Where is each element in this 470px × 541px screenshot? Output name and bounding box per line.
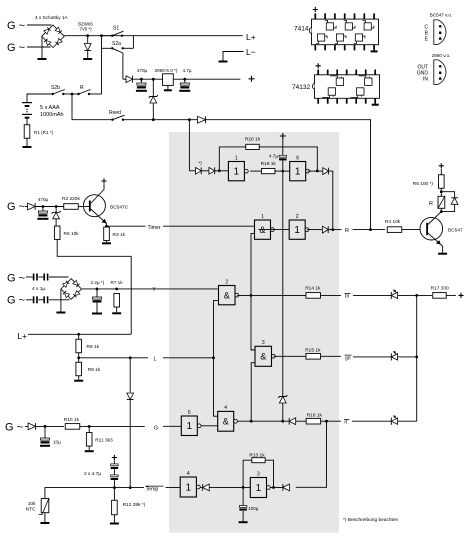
wire G5 out to G6: [258, 229, 289, 231]
wire L node down to diode D6: [129, 358, 131, 393]
wire flyback diode bottom: [441, 204, 454, 211]
wire S2a branch from rail: [132, 36, 134, 49]
svg-text:1: 1: [256, 483, 262, 494]
ground (TVS): [83, 58, 92, 60]
ground (C7): [239, 521, 248, 523]
svg-text:2: 2: [296, 214, 299, 220]
svg-text:R11 3k3: R11 3k3: [95, 438, 113, 444]
wire R13 feedback: [243, 460, 252, 487]
resistor R14 1k: [306, 293, 321, 299]
node relay bottom: [440, 210, 443, 213]
wire R11 to ground: [88, 446, 90, 450]
relay coil R: [438, 196, 445, 208]
svg-text:G ~: G ~: [7, 42, 25, 54]
ground (R1): [23, 146, 32, 148]
wire G~2 to bridge bottom: [27, 46, 51, 48]
LED D13 (blue): [390, 292, 392, 299]
wire zener to G row: [282, 403, 284, 421]
svg-text:*): *): [198, 161, 202, 167]
wire caps to bridge2: [49, 276, 69, 278]
wire node to S1: [102, 35, 113, 37]
resistor R9 1k: [78, 358, 80, 363]
wire D8 to D9: [201, 170, 209, 172]
svg-text:*) Beschreibung beachten: *) Beschreibung beachten: [343, 517, 399, 523]
diode D1 charge input: [126, 76, 133, 83]
node D12/D10 join: [331, 228, 334, 231]
wire plus rail upper: [282, 139, 284, 155]
wire D17 to gate G12: [209, 486, 250, 488]
svg-text:OUT: OUT: [417, 64, 428, 70]
wire Q2 emitter with arrow: [428, 233, 443, 253]
svg-text:R3 1k: R3 1k: [113, 232, 126, 238]
wire G3 out to R19: [250, 170, 261, 172]
wire LED3 to bus: [398, 420, 417, 422]
wire R10 to G label: [80, 425, 145, 427]
wire G into gate G5: [163, 425, 181, 427]
svg-text:1000mAh: 1000mAh: [40, 112, 64, 118]
wire G~1 to bridge top: [27, 24, 52, 26]
wire L row right segment: [163, 357, 214, 359]
svg-text:IN: IN: [423, 77, 428, 83]
resistor R19 1k: [261, 169, 275, 174]
wire zener to R6: [55, 219, 57, 226]
wire R20 to gate G4 output node: [259, 147, 317, 171]
wire R8 to L node: [78, 353, 80, 358]
wire Temp row to label: [114, 487, 144, 489]
node A / bl row: [250, 294, 253, 297]
capacitor C7 100u: [242, 487, 244, 505]
zener diode D5: [53, 212, 60, 219]
thermistor NTC 10k: [41, 499, 49, 513]
wire battery plus up to S2b: [27, 94, 53, 102]
wire LED1 to R17: [398, 294, 432, 296]
wire R14 to bl label: [320, 294, 341, 296]
svg-text:3: 3: [262, 340, 265, 346]
svg-text:R: R: [429, 201, 433, 207]
svg-text:1: 1: [235, 155, 238, 161]
zener diode D2: [150, 97, 157, 104]
diode D15 (pointing left): [288, 418, 290, 425]
svg-text:R13 1k: R13 1k: [249, 452, 265, 458]
svg-text:BC547 v.o.: BC547 v.o.: [430, 13, 452, 18]
resistor R11 3k3: [88, 426, 90, 432]
ground (R11): [85, 450, 94, 452]
wire R3 to ground: [106, 241, 108, 243]
capacitor C3 470u electrolytic: [42, 207, 44, 212]
wire Q1 collector to plus: [91, 184, 105, 204]
svg-text:2: 2: [225, 279, 228, 285]
nand gate G11 (&): [218, 411, 234, 431]
ground (bridge B1): [38, 58, 47, 60]
svg-text:1: 1: [261, 214, 264, 220]
node R11: [88, 425, 91, 428]
switch S2b: [52, 93, 54, 95]
svg-text:R6 10k: R6 10k: [64, 231, 80, 237]
wire R12 to ground: [113, 515, 115, 523]
wire R to R4: [353, 229, 386, 231]
capacitors 2 x 4.7u: [112, 455, 117, 460]
svg-text:R19 1k: R19 1k: [261, 161, 277, 167]
wire vertical net A lower: [251, 363, 255, 422]
diode D17 (pointing left): [202, 484, 204, 491]
svg-text:2.2µ *): 2.2µ *): [91, 280, 105, 285]
wire Q2 collector: [428, 212, 441, 225]
ground (C5): [40, 445, 50, 447]
capacitor C2 4.7u electrolytic: [184, 79, 186, 83]
wire R17 to plus: [446, 294, 456, 296]
wire R16 to rt label: [321, 420, 341, 422]
switch S1: [111, 35, 113, 37]
svg-text:L+: L+: [246, 32, 256, 42]
voltage regulator U3 2950-5.0: [163, 74, 174, 86]
svg-text:C: C: [424, 24, 428, 30]
wire R19 to gate G4: [275, 170, 290, 172]
wire G5 lower input hook: [251, 233, 255, 236]
resistor R8 1k: [78, 334, 80, 339]
reed switch: [111, 119, 113, 121]
nand gate G7 (&) Y: [219, 286, 236, 305]
resistor R20 1k: [246, 144, 260, 149]
node B / L row: [212, 356, 215, 359]
wire R4 to Q2 base: [402, 229, 420, 231]
wire R5 to relay coil: [440, 188, 442, 196]
diode D6 (pointing down): [127, 393, 134, 400]
wire reed to diode D3: [123, 119, 197, 121]
wire plus to R5: [440, 169, 442, 175]
node rt / temp riser: [325, 420, 328, 423]
node LED bus top: [415, 294, 418, 297]
svg-text:R20 1k: R20 1k: [245, 136, 261, 142]
diode D18 (pointing left): [282, 484, 284, 491]
svg-text:NTC: NTC: [26, 507, 36, 513]
svg-text:74132: 74132: [292, 84, 310, 91]
wire feedback to R20: [219, 147, 245, 171]
wire L row left segment: [79, 357, 148, 359]
node relay/diode top: [440, 190, 443, 193]
ground (L-): [219, 61, 228, 63]
ground (R3): [102, 242, 111, 244]
node zener return: [152, 118, 155, 121]
node C5 10u: [44, 425, 47, 428]
wire R6 bottom to L+ riser: [57, 240, 131, 335]
svg-text:4: 4: [224, 405, 227, 411]
diode D10: [323, 168, 329, 175]
svg-text:S2a: S2a: [112, 41, 121, 47]
node 470u: [140, 78, 143, 81]
svg-text:BC547C: BC547C: [110, 205, 129, 211]
svg-text:R: R: [345, 228, 349, 234]
wire G10 out to G11: [201, 425, 218, 427]
resistor R16 1k: [306, 418, 321, 424]
svg-text:7V0 *): 7V0 *): [79, 27, 92, 32]
ground (C4): [92, 313, 102, 315]
node Temp / D6 join: [129, 486, 132, 489]
svg-text:R9 1k: R9 1k: [88, 367, 101, 373]
svg-text:R5 100 *): R5 100 *): [413, 181, 434, 187]
ground (R7): [112, 312, 121, 314]
svg-text:R12 39k *): R12 39k *): [123, 502, 146, 508]
svg-text:S1: S1: [113, 26, 119, 32]
svg-text:&: &: [224, 291, 230, 301]
svg-text:BC547: BC547: [448, 228, 463, 234]
node LED bus mid: [415, 356, 418, 359]
svg-text:G ~: G ~: [5, 422, 23, 434]
plus symbol Q1 collector: [101, 178, 106, 183]
wire G4 out to diode D10: [308, 170, 323, 172]
relay contact R (switch): [77, 93, 79, 95]
wire Q1 emitter with arrow: [91, 209, 107, 226]
wire NTC to Temp row: [45, 488, 115, 499]
ground (Q2 emitter): [438, 253, 447, 255]
wire R13 feedback right: [265, 460, 273, 487]
node L / diode branch: [129, 356, 132, 359]
wire G12 out to D18: [270, 487, 283, 489]
node C3: [42, 205, 45, 208]
capacitor C5 10u electrolytic: [44, 426, 46, 438]
svg-text:L+: L+: [17, 331, 27, 341]
plus symbol relay supply: [439, 163, 444, 168]
capacitor C6 4.7u: [279, 155, 287, 157]
wire Timer into gate G1: [163, 225, 255, 227]
svg-text:5 x AAA: 5 x AAA: [40, 105, 60, 111]
node oscillator feedback: [218, 169, 221, 172]
svg-text:4 x Schottky 1A: 4 x Schottky 1A: [35, 15, 68, 20]
svg-text:R10 1k: R10 1k: [64, 417, 80, 423]
svg-text:1: 1: [295, 167, 301, 178]
wire Y row to gate G2: [82, 288, 219, 290]
svg-text:4.7µ: 4.7µ: [269, 154, 278, 159]
wire bridge1 left vertex to ground: [41, 37, 43, 59]
wire NTC to ground: [44, 513, 46, 522]
wire relay to collector node: [440, 208, 442, 211]
svg-text:6: 6: [296, 155, 299, 161]
resistor R3 1k: [104, 227, 110, 241]
svg-text:2 x 4.7µ: 2 x 4.7µ: [84, 471, 101, 477]
svg-text:&: &: [260, 352, 266, 362]
diode D3 on reed rail: [198, 116, 206, 123]
wire bridge2 left vertex to ground: [60, 289, 62, 311]
node 4.7u: [183, 78, 186, 81]
wire S2a to charge diode: [122, 53, 124, 79]
ground (regulator): [164, 89, 172, 91]
resistor R15 1k: [306, 354, 321, 360]
wire gn to LED2: [353, 356, 391, 358]
inverter gate G12: [250, 478, 266, 498]
svg-text:R1 (R1 *): R1 (R1 *): [34, 130, 54, 135]
wire G7 out to R14: [237, 294, 306, 296]
wire G8 out to D17: [200, 486, 203, 488]
wire plus rail vertical: [282, 161, 284, 397]
wire LED2 to bus: [398, 356, 417, 358]
node BZW06 tap: [86, 34, 89, 37]
svg-text:R4 10k: R4 10k: [385, 219, 401, 225]
wire D6 down to Temp node: [129, 400, 131, 488]
bridge rectifier B1 (4 x Schottky 1A): [42, 25, 65, 48]
svg-text:3: 3: [257, 471, 260, 477]
resistor R4 10k: [387, 227, 402, 233]
wire regulator output rail: [173, 78, 240, 80]
wire node down to S2a: [101, 36, 103, 49]
transistor Q1 BC547C: [83, 195, 105, 217]
wire G~3 to diode D4: [25, 206, 28, 208]
svg-text:1: 1: [187, 421, 193, 432]
wire main positive rail to L+: [64, 35, 242, 37]
svg-text:4.7µ: 4.7µ: [182, 68, 191, 73]
wire R contact to rail riser: [89, 93, 102, 95]
LED D16 (red): [390, 418, 392, 425]
wire D10 down to R node: [329, 171, 333, 229]
svg-text:R14 1k: R14 1k: [305, 286, 321, 292]
wire node to zener D5: [55, 207, 57, 213]
ground (NTC): [40, 522, 49, 524]
node zener D5 / R6: [55, 205, 58, 208]
wire R9 to ground: [78, 376, 80, 380]
wire zener to reed rail: [152, 103, 154, 120]
svg-text:100µ: 100µ: [248, 506, 259, 511]
diode D4: [28, 203, 35, 210]
svg-text:R15 1k: R15 1k: [305, 348, 321, 354]
capacitor C4 2.2u electrolytic: [96, 289, 98, 297]
svg-text:470µ: 470µ: [38, 197, 49, 202]
svg-text:G ~: G ~: [7, 273, 25, 285]
inverter gate G10: [181, 416, 197, 436]
wire to reed switch: [72, 119, 113, 121]
node R19/plus rail: [281, 170, 284, 173]
switch S2a: [111, 47, 113, 49]
wire S2b to R contact: [63, 93, 78, 95]
svg-text:2950-5.0 *): 2950-5.0 *): [155, 68, 178, 73]
bridge rectifier B2: [61, 279, 82, 300]
svg-text:G: G: [154, 426, 158, 432]
wire L- stub and ground: [223, 52, 244, 61]
plus symbol logic supply: [280, 133, 286, 139]
wire to TVS D-BZW: [87, 36, 89, 43]
inverter gate G4 (IC gate 6): [290, 162, 306, 181]
ground (bridge B2): [56, 312, 65, 314]
ground (74132 pin 7): [372, 104, 379, 106]
wire diode to R2: [34, 206, 64, 208]
svg-text:R: R: [80, 85, 84, 91]
ground (7414 pin 7): [371, 50, 378, 52]
wire L+ row: [28, 333, 131, 335]
ground (C1): [136, 90, 147, 92]
resistor R12 39k: [113, 488, 115, 501]
IC U2 74132 DIP-14 package: [315, 75, 380, 99]
wire R15 to gn label: [320, 355, 341, 357]
node L+ / R8: [77, 333, 80, 336]
node G4 output / feedback: [316, 170, 319, 173]
svg-text:7414: 7414: [294, 26, 309, 33]
node R7: [115, 288, 118, 291]
IC U1 7414 DIP-14 package: [312, 19, 379, 45]
LED D14 (green): [390, 353, 392, 360]
wire caps to bridge2 bottom: [49, 299, 70, 301]
resistor R17 330: [433, 293, 447, 299]
wire Temp into gate G8: [166, 487, 181, 489]
resistor R1: [24, 125, 30, 139]
svg-text:1: 1: [294, 225, 300, 236]
svg-text:L: L: [153, 357, 156, 363]
wire rt to LED3: [352, 420, 391, 422]
node R13/C7: [242, 486, 245, 489]
svg-text:10µ: 10µ: [53, 440, 61, 445]
wire G~4 to diode D7: [25, 425, 28, 427]
wire G6 out to diode D12: [307, 229, 322, 231]
plus symbol 7414 Vcc: [313, 7, 318, 12]
wire emitter to Timer label: [107, 225, 146, 227]
ground (C2): [179, 90, 190, 92]
node G12 out / R13: [272, 486, 275, 489]
wire R1 to ground: [26, 138, 28, 146]
battery BT1 5 x AAA 1000mAh: [22, 102, 32, 103]
resistor R7 1k: [114, 294, 120, 308]
wire node down to zener D2: [152, 79, 154, 96]
flyback diode D19: [451, 198, 458, 205]
ground (R12): [110, 523, 119, 525]
wire battery minus to R1: [26, 119, 28, 125]
diode D8 oscillator: [195, 167, 201, 174]
wire vertical net A: [251, 236, 255, 350]
wire riser to S2a row: [101, 48, 103, 94]
node C4 2.2u: [96, 288, 99, 291]
svg-text:S2b: S2b: [51, 85, 60, 91]
node battery/reed junction: [71, 93, 74, 96]
plus symbol LED supply: [458, 293, 463, 298]
svg-text:R2 220k: R2 220k: [62, 196, 80, 202]
svg-text:Timer: Timer: [148, 225, 161, 231]
svg-text:10k: 10k: [28, 501, 36, 507]
TVS diode BZW06 7V0: [84, 44, 91, 51]
inverter gate G8: [180, 477, 196, 497]
wire rt node down to temp diode: [296, 421, 327, 487]
wire D9 to gate G3: [215, 170, 229, 172]
nand gate G9 (&) gn: [255, 346, 272, 366]
resistor R5 100: [439, 175, 445, 189]
wire G9 out to R15: [274, 355, 307, 357]
wire diode to regulator: [133, 78, 163, 80]
svg-text:G ~: G ~: [7, 20, 25, 32]
svg-text:1: 1: [186, 482, 192, 493]
7414 inverter gate symbols: [326, 23, 333, 30]
nand gate G5 (&) timer: [255, 220, 271, 239]
wire D15 to R16: [296, 420, 307, 422]
wire diode to R10: [35, 425, 64, 427]
svg-text:Reed: Reed: [109, 110, 121, 116]
resistor R2 220k: [64, 204, 79, 210]
node rail/S1: [100, 34, 103, 37]
svg-text:G ~: G ~: [7, 201, 25, 213]
wire vertical net B: [214, 300, 219, 416]
svg-text:R17 330: R17 330: [431, 285, 449, 291]
node L divider: [77, 356, 80, 359]
wire reed node down into oscillator: [188, 120, 190, 171]
resistor R10 1k: [65, 424, 80, 430]
svg-text:G ~: G ~: [7, 295, 25, 307]
node oscillator tap: [188, 118, 191, 121]
svg-text:R8 1k: R8 1k: [87, 344, 100, 350]
svg-text:4: 4: [187, 471, 190, 477]
svg-text:2950 v.o.: 2950 v.o.: [432, 53, 451, 58]
wire flyback diode branch: [441, 192, 454, 198]
svg-text:470µ: 470µ: [137, 68, 148, 73]
wire bl to LED1: [353, 294, 391, 296]
svg-text:4 x 1µ: 4 x 1µ: [32, 286, 45, 292]
diode D9 oscillator: [209, 167, 215, 174]
svg-text:gn: gn: [345, 355, 351, 361]
wire G11 out: [238, 420, 290, 422]
node zener / G row: [281, 420, 284, 423]
wire R2 to Q1 base: [78, 206, 84, 208]
